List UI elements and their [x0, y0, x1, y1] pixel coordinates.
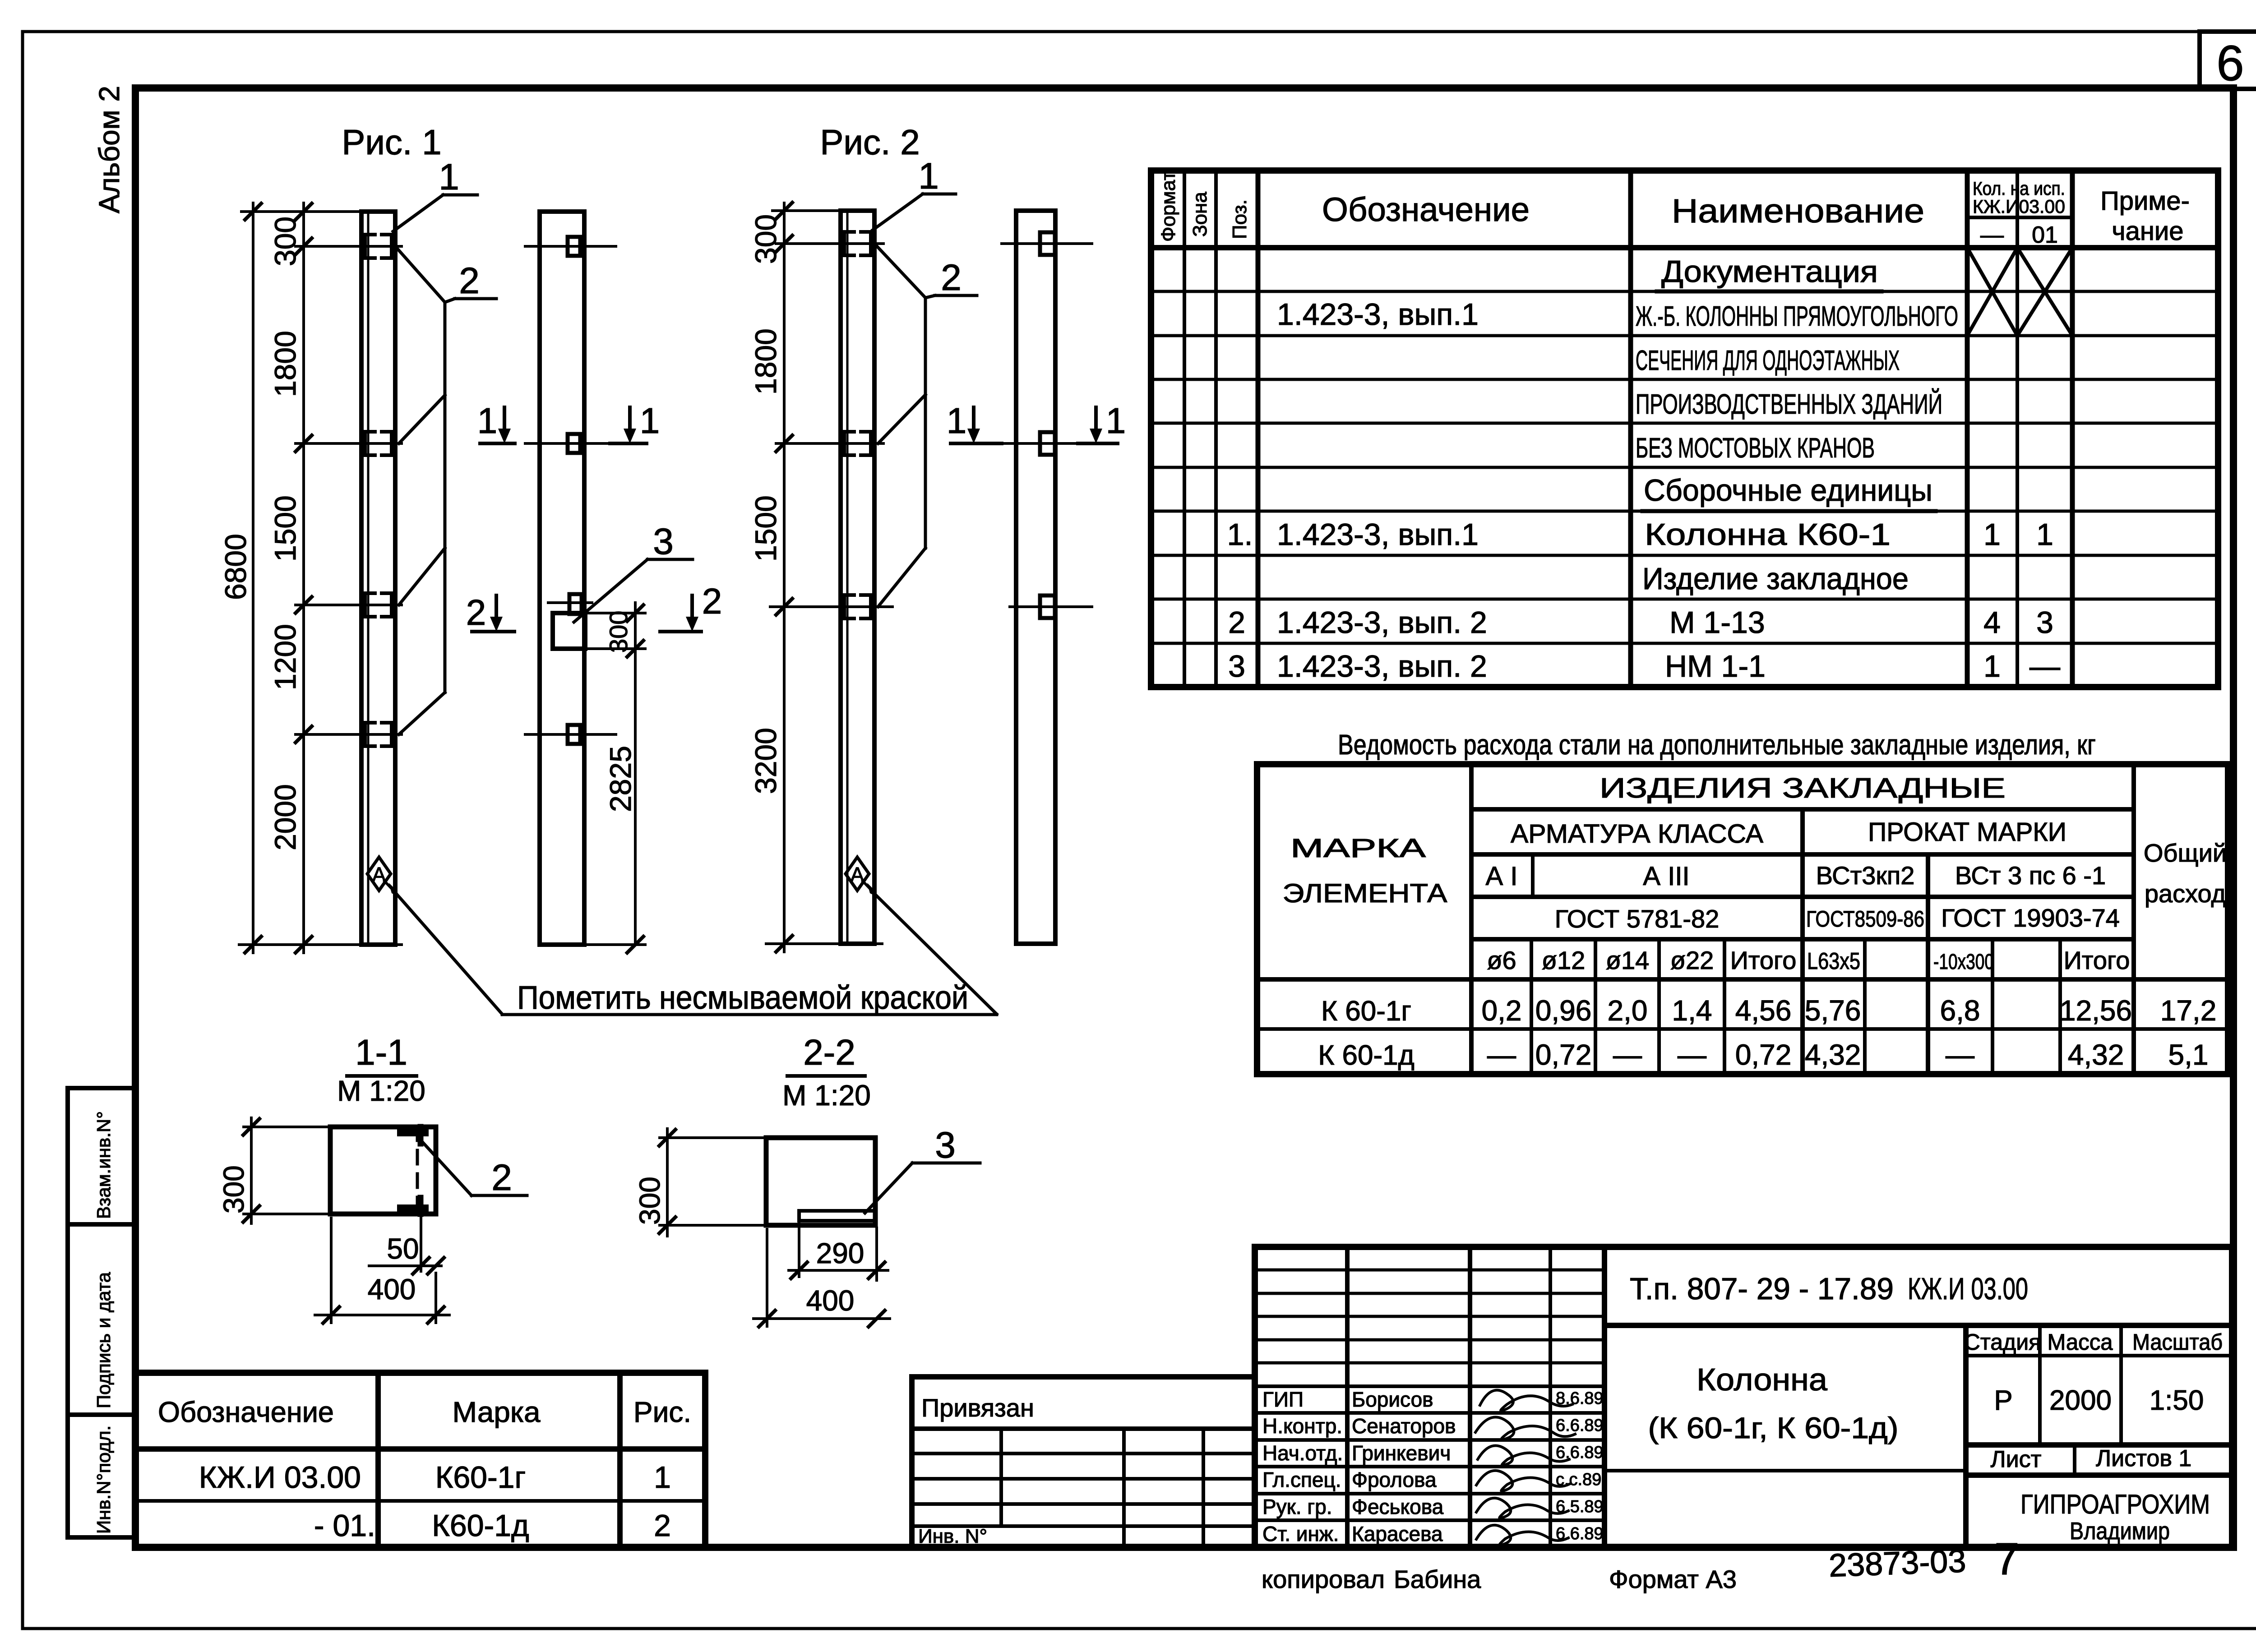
svg-text:8.6.89: 8.6.89 [1556, 1389, 1604, 1408]
fig2 side embed plate 540 [1040, 232, 1055, 255]
fig1 console dim 300 [585, 603, 645, 659]
svg-text:—: — [1678, 1038, 1706, 1071]
fig2 level line top [772, 209, 841, 212]
svg-text:Обозначение: Обозначение [158, 1396, 334, 1428]
svg-text:3: 3 [2036, 605, 2053, 640]
svg-text:ВСт3кп2: ВСт3кп2 [1816, 861, 1915, 890]
steel verticals sub [1531, 854, 2060, 1074]
svg-text:Изделие закладное: Изделие закладное [1642, 562, 1909, 596]
svg-text:Подпись и дата: Подпись и дата [93, 1272, 114, 1408]
bottom-left table verticals [375, 1373, 381, 1547]
fig1 level line 1628 [296, 733, 402, 736]
svg-text:ГОСТ8509-86: ГОСТ8509-86 [1806, 906, 1924, 932]
svg-text:2,0: 2,0 [1608, 994, 1648, 1027]
fig1 side embed tick 1628 [525, 733, 616, 736]
svg-text:1200: 1200 [268, 624, 302, 690]
svg-text:Сборочные единицы: Сборочные единицы [1644, 473, 1932, 508]
svg-text:01: 01 [2032, 222, 2058, 248]
fig2 leader to items 2 [874, 244, 977, 607]
svg-text:ø22: ø22 [1670, 946, 1714, 974]
svg-text:1: 1 [947, 401, 967, 441]
title block verticals left part [1347, 1247, 1604, 1547]
bottom-left table rows [135, 1446, 705, 1452]
fig1 dim 2825 [634, 649, 637, 945]
svg-text:К 60-1г: К 60-1г [1321, 996, 1411, 1027]
svg-text:А: А [851, 863, 864, 886]
svg-text:1: 1 [918, 156, 939, 197]
stamp box podpis i data [68, 1224, 135, 1415]
svg-text:0,96: 0,96 [1535, 994, 1592, 1027]
svg-text:0,72: 0,72 [1535, 1038, 1592, 1071]
svg-text:Пометить несмываемой краской: Пометить несмываемой краской [517, 980, 968, 1016]
svg-text:—: — [2029, 649, 2060, 683]
svg-text:300: 300 [217, 1165, 250, 1214]
spec header bottom line [1151, 245, 2218, 250]
svg-text:Карасева: Карасева [1352, 1522, 1443, 1546]
svg-text:НМ 1-1: НМ 1-1 [1665, 649, 1766, 683]
section 1-1 dim 300 [244, 1118, 330, 1223]
spec X crosses [1967, 248, 2072, 336]
svg-text:Итого: Итого [2064, 946, 2130, 974]
section 1-1 item 2 dashed channel [416, 1127, 419, 1214]
fig1 hooks level 546 [365, 235, 392, 746]
fig2 dim chain line [783, 203, 786, 952]
svg-text:4,32: 4,32 [1805, 1038, 1861, 1071]
fig1 leader from A to note [397, 895, 502, 1014]
title block signature rows [1255, 1386, 1604, 1520]
section 2-2 leader to item 3 [865, 1163, 980, 1213]
svg-text:Формат: Формат [1157, 171, 1179, 242]
svg-text:Колонна К60-1: Колонна К60-1 [1645, 517, 1891, 552]
section 1-1 leader to item 2 [421, 1140, 527, 1195]
svg-text:А: А [372, 863, 386, 886]
fig1 level line bottom [239, 943, 402, 946]
svg-text:МАРКА: МАРКА [1290, 834, 1426, 863]
fig2 leader from A to note [875, 895, 997, 1014]
svg-text:0,72: 0,72 [1735, 1038, 1792, 1071]
svg-text:1.: 1. [1227, 517, 1253, 552]
svg-text:чание: чание [2112, 217, 2183, 246]
svg-text:Н.контр.: Н.контр. [1262, 1414, 1342, 1438]
svg-text:ВСт 3 пс 6 -1: ВСт 3 пс 6 -1 [1955, 861, 2106, 890]
svg-text:Стадия: Стадия [1964, 1329, 2041, 1355]
svg-text:1.423-3, вып.1: 1.423-3, вып.1 [1277, 297, 1479, 332]
svg-text:6800: 6800 [219, 534, 252, 600]
svg-text:ГИП: ГИП [1262, 1388, 1304, 1411]
title block frame [1255, 1247, 2232, 1547]
svg-text:300: 300 [749, 214, 782, 264]
fig2 side embed plate 1345 [1040, 595, 1055, 618]
specification table frame [1151, 171, 2218, 687]
svg-text:1.423-3, вып. 2: 1.423-3, вып. 2 [1277, 649, 1487, 683]
fig1 column front inner edge [367, 212, 370, 945]
svg-text:1: 1 [439, 157, 459, 198]
fig2 side embed plate 983 [1040, 432, 1055, 455]
svg-text:Ст. инж.: Ст. инж. [1262, 1522, 1339, 1546]
svg-text:Ж.-Б. КОЛОННЫ ПРЯМОУГОЛЬНОГО: Ж.-Б. КОЛОННЫ ПРЯМОУГОЛЬНОГО [1636, 301, 1958, 332]
fig1 side embed tick 983 [525, 442, 616, 445]
svg-text:Итого: Итого [1730, 946, 1797, 974]
svg-text:1800: 1800 [749, 328, 782, 395]
fig1 console top tick [548, 601, 592, 604]
fig1 leader to items 2 [395, 246, 496, 734]
svg-text:Фролова: Фролова [1352, 1468, 1437, 1491]
svg-text:Борисов: Борисов [1352, 1388, 1433, 1411]
svg-text:Сенаторов: Сенаторов [1352, 1414, 1456, 1438]
svg-text:Феськова: Феськова [1352, 1495, 1444, 1518]
svg-text:1:50: 1:50 [2150, 1385, 2204, 1416]
svg-text:1800: 1800 [268, 331, 302, 397]
svg-text:Наименование: Наименование [1672, 192, 1924, 230]
svg-text:6: 6 [2216, 36, 2244, 91]
svg-text:1: 1 [1983, 649, 2001, 683]
stadia massa masshtab cells [1966, 1354, 2232, 1357]
svg-text:1: 1 [640, 401, 660, 441]
fig1 side embed plate 983 [568, 434, 580, 453]
fig1 hooks level 1628 [365, 723, 375, 746]
svg-text:Лист: Лист [1991, 1446, 2042, 1472]
fig2 level line 1345 [770, 605, 892, 608]
svg-text:Гл.спец.: Гл.спец. [1262, 1468, 1341, 1491]
fig1 level line top [241, 210, 361, 213]
svg-text:L63x5: L63x5 [1807, 948, 1860, 974]
svg-text:6,8: 6,8 [1940, 994, 1980, 1027]
spec kol cell split [1967, 216, 2072, 219]
fig2 column front inner edge [846, 211, 849, 944]
fig1 console item 3 [553, 613, 585, 649]
fig2 dim ticks [776, 203, 792, 952]
title block big cell divider [1604, 1323, 2232, 1328]
svg-text:Нач.отд.: Нач.отд. [1262, 1441, 1343, 1465]
svg-text:3: 3 [1228, 649, 1245, 683]
fig1 section marker 2 left [472, 595, 514, 632]
svg-text:1: 1 [654, 1460, 671, 1495]
svg-text:БЕЗ МОСТОВЫХ КРАНОВ: БЕЗ МОСТОВЫХ КРАНОВ [1636, 433, 1875, 464]
svg-text:копировал: копировал [1262, 1565, 1385, 1593]
svg-text:1.423-3, вып. 2: 1.423-3, вып. 2 [1277, 605, 1487, 640]
svg-text:2825: 2825 [604, 746, 637, 812]
svg-text:5,76: 5,76 [1805, 994, 1861, 1027]
svg-text:1: 1 [1983, 517, 2001, 552]
fig1 level line 1341 [296, 604, 402, 606]
fig2 level line 983 [776, 442, 883, 445]
fig1 section marker 1 left [480, 407, 515, 443]
svg-text:1: 1 [2036, 517, 2053, 552]
section 2-2 item 3 plate [799, 1211, 875, 1221]
svg-text:КЖ.И 03.00: КЖ.И 03.00 [199, 1460, 361, 1495]
svg-text:КЖ.И 03.00: КЖ.И 03.00 [1908, 1272, 2028, 1306]
svg-text:2000: 2000 [2049, 1385, 2112, 1416]
fig2 side embed tick 983 [1002, 442, 1092, 445]
svg-text:- 01.: - 01. [314, 1509, 375, 1543]
svg-text:1.423-3, вып.1: 1.423-3, вып.1 [1277, 517, 1479, 552]
svg-text:АРМАТУРА КЛАССА: АРМАТУРА КЛАССА [1511, 819, 1763, 849]
svg-text:2: 2 [941, 257, 962, 298]
section 1-1 item 2 bottom weld mark [401, 1204, 425, 1212]
svg-text:Инв. N°: Инв. N° [918, 1525, 987, 1547]
svg-text:Документация: Документация [1661, 254, 1878, 289]
svg-text:ø6: ø6 [1487, 946, 1516, 974]
fig2 leader to item 1 [873, 194, 956, 230]
svg-text:2: 2 [466, 592, 486, 632]
svg-text:1500: 1500 [749, 495, 782, 562]
fig1 hooks level 1341 [365, 593, 375, 617]
svg-text:Масса: Масса [2048, 1329, 2113, 1355]
svg-text:2: 2 [654, 1509, 671, 1543]
page number box [2200, 32, 2256, 89]
paint note underline [502, 1013, 997, 1016]
svg-text:Владимир: Владимир [2070, 1518, 2170, 1545]
svg-text:Листов 1: Листов 1 [2096, 1445, 2191, 1472]
svg-text:—: — [1980, 222, 2004, 248]
svg-text:2: 2 [491, 1157, 512, 1198]
svg-text:2: 2 [1228, 605, 1245, 640]
svg-text:Зона: Зона [1189, 192, 1211, 237]
svg-text:400: 400 [806, 1284, 855, 1317]
svg-text:ø12: ø12 [1542, 946, 1586, 974]
svg-text:300: 300 [268, 217, 302, 266]
svg-text:17,2: 17,2 [2160, 994, 2217, 1027]
svg-text:—: — [1487, 1038, 1516, 1071]
svg-text:А I: А I [1486, 862, 1518, 891]
svg-text:5,1: 5,1 [2168, 1038, 2209, 1071]
fig1 side embed tick 546 [525, 245, 616, 248]
svg-text:290: 290 [816, 1237, 864, 1269]
fig1 leader to item 3 [574, 559, 693, 622]
svg-text:1: 1 [1106, 401, 1126, 441]
svg-text:7: 7 [1994, 1534, 2020, 1584]
svg-text:300: 300 [604, 611, 633, 653]
svg-text:К 60-1д: К 60-1д [1318, 1040, 1415, 1071]
svg-text:50: 50 [387, 1232, 419, 1265]
svg-text:ГОСТ 19903-74: ГОСТ 19903-74 [1941, 904, 2120, 932]
fig2 hooks level 983 [844, 432, 854, 455]
svg-text:—: — [1946, 1038, 1974, 1071]
section 2-2 column outline [766, 1138, 875, 1225]
svg-text:Масштаб: Масштаб [2132, 1329, 2223, 1355]
fig2 section marker 1 left [951, 407, 1002, 443]
svg-text:Колонна: Колонна [1697, 1362, 1827, 1397]
svg-text:ø14: ø14 [1606, 946, 1650, 974]
fig2 side embed tick 540 [1002, 242, 1092, 245]
steel table frame [1257, 764, 2228, 1074]
fig2 level line 540 [776, 242, 883, 245]
spec verticals [1184, 171, 2072, 687]
steel horizontals [1257, 809, 2228, 1029]
svg-text:-10x300: -10x300 [1933, 950, 1994, 974]
svg-text:Общий: Общий [2144, 839, 2227, 867]
svg-text:4: 4 [1983, 605, 2001, 640]
svg-text:6.6.89: 6.6.89 [1556, 1416, 1604, 1435]
fig1 column front view [361, 212, 395, 945]
svg-text:Альбом 2: Альбом 2 [93, 86, 125, 213]
fig1 section marker 1 right [610, 407, 647, 443]
fig2 column front view [841, 211, 874, 944]
svg-text:4,56: 4,56 [1735, 994, 1792, 1027]
bottom-left table frame [135, 1373, 705, 1547]
svg-text:1: 1 [477, 401, 498, 441]
svg-text:6.5.89: 6.5.89 [1556, 1497, 1604, 1516]
fig1 dim chain 6800 line [252, 203, 254, 953]
svg-text:Рис.: Рис. [633, 1396, 691, 1428]
svg-text:с.с.89: с.с.89 [1556, 1470, 1601, 1489]
svg-text:4,32: 4,32 [2068, 1038, 2124, 1071]
svg-text:Привязан: Привязан [921, 1394, 1034, 1422]
fig2 column side view [1016, 211, 1055, 944]
steel verticals main [1471, 764, 2134, 1074]
privyazan box columns [1001, 1429, 1203, 1547]
svg-text:2-2: 2-2 [803, 1032, 855, 1072]
section 2-2 dim 400 [754, 1229, 890, 1326]
title block upper small rows [1255, 1270, 1604, 1363]
svg-text:ПРОКАТ МАРКИ: ПРОКАТ МАРКИ [1868, 817, 2066, 847]
svg-text:ИЗДЕЛИЯ ЗАКЛАДНЫЕ: ИЗДЕЛИЯ ЗАКЛАДНЫЕ [1600, 773, 2006, 804]
svg-text:2: 2 [459, 260, 480, 301]
fig1 column side view [540, 212, 584, 945]
svg-text:расход: расход [2145, 879, 2226, 908]
svg-text:ГИПРОАГРОХИМ: ГИПРОАГРОХИМ [2020, 1489, 2210, 1519]
fig2 side embed tick 1345 [1010, 605, 1092, 608]
svg-text:Рис. 2: Рис. 2 [820, 122, 920, 162]
privyazan box frame [912, 1377, 1255, 1547]
svg-text:23873-03: 23873-03 [1828, 1543, 1967, 1584]
svg-text:6.6.89: 6.6.89 [1556, 1524, 1604, 1543]
svg-text:М 1-13: М 1-13 [1669, 605, 1765, 640]
svg-text:К60-1г: К60-1г [435, 1460, 526, 1495]
fig1 side embed plate 546 [568, 237, 580, 256]
svg-text:6.6.89: 6.6.89 [1556, 1443, 1604, 1462]
stamp box inv N podl [68, 1415, 135, 1537]
stamp box vzam inv N [68, 1088, 135, 1224]
svg-text:Инв.N°подл.: Инв.N°подл. [93, 1426, 114, 1534]
fig1 level line 546 [296, 245, 402, 248]
fig1 leader to item 1 [393, 195, 477, 231]
fig1 level line 983 [296, 442, 402, 445]
fig1 section marker 2 right [660, 595, 701, 632]
svg-text:Р: Р [1994, 1385, 2012, 1416]
svg-text:(К 60-1г, К 60-1д): (К 60-1г, К 60-1д) [1648, 1411, 1899, 1444]
svg-text:Т.п. 807- 29 - 17.89: Т.п. 807- 29 - 17.89 [1630, 1272, 1894, 1306]
section 2-2 dim 300 [660, 1129, 766, 1236]
fig2 level line bottom [766, 942, 882, 945]
svg-text:ЭЛЕМЕНТА: ЭЛЕМЕНТА [1283, 879, 1447, 908]
svg-text:1-1: 1-1 [355, 1032, 407, 1072]
svg-text:Ведомость расхода стали на доп: Ведомость расхода стали на дополнительны… [1338, 729, 2096, 761]
fig2 section marker 1 right [1078, 407, 1118, 443]
svg-text:3: 3 [653, 521, 674, 562]
svg-text:СЕЧЕНИЯ ДЛЯ ОДНОЭТАЖНЫХ: СЕЧЕНИЯ ДЛЯ ОДНОЭТАЖНЫХ [1636, 345, 1900, 376]
svg-text:М 1:20: М 1:20 [337, 1075, 425, 1107]
svg-text:КЖ.И03.00: КЖ.И03.00 [1973, 196, 2065, 217]
fig1 dim ticks [245, 203, 312, 953]
svg-text:М 1:20: М 1:20 [782, 1079, 871, 1112]
svg-text:1,4: 1,4 [1672, 994, 1712, 1027]
svg-text:Рис. 1: Рис. 1 [342, 122, 441, 162]
svg-text:300: 300 [633, 1177, 666, 1225]
section 1-1 column outline [330, 1127, 436, 1214]
svg-text:1500: 1500 [268, 495, 302, 562]
spec row lines [1151, 291, 2218, 643]
svg-text:Приме-: Приме- [2100, 186, 2190, 216]
svg-text:2: 2 [702, 581, 722, 621]
svg-text:Взам.инв.N°: Взам.инв.N° [93, 1111, 114, 1219]
svg-text:Обозначение: Обозначение [1322, 191, 1530, 228]
svg-text:А III: А III [1643, 862, 1689, 891]
svg-text:Гринкевич: Гринкевич [1352, 1441, 1451, 1465]
section 2-2 dim 290 [789, 1223, 888, 1280]
fig2 hooks level 1345 [844, 595, 854, 618]
svg-text:Поз.: Поз. [1229, 199, 1251, 239]
fig1 paint mark diamond A [367, 857, 391, 891]
fig1 hooks level 983 [365, 432, 375, 455]
svg-text:ПРОИЗВОДСТВЕННЫХ ЗДАНИЙ: ПРОИЗВОДСТВЕННЫХ ЗДАНИЙ [1636, 388, 1942, 420]
fig2 hooks level 540 [844, 232, 854, 255]
fig1 console top plate [569, 594, 582, 614]
svg-text:—: — [1613, 1038, 1642, 1071]
svg-text:К60-1д: К60-1д [432, 1509, 529, 1543]
privyazan box rows [912, 1429, 1255, 1526]
svg-text:Рук. гр.: Рук. гр. [1262, 1495, 1332, 1518]
svg-text:400: 400 [368, 1273, 416, 1306]
fig1 side embed plate 1628 [568, 725, 580, 744]
svg-text:12,56: 12,56 [2060, 994, 2132, 1027]
fig1 dim chain segments line [302, 203, 305, 953]
fig2 paint mark diamond A [846, 857, 869, 891]
svg-text:0,2: 0,2 [1482, 994, 1522, 1027]
svg-text:Марка: Марка [453, 1396, 541, 1428]
svg-text:3200: 3200 [749, 728, 782, 794]
section 1-1 item 2 top weld mark [401, 1129, 425, 1136]
svg-text:Формат А3: Формат А3 [1609, 1565, 1737, 1593]
section 1-1 dim 400 [315, 1218, 449, 1323]
svg-text:ГОСТ 5781-82: ГОСТ 5781-82 [1555, 904, 1720, 933]
svg-text:2000: 2000 [268, 784, 302, 850]
svg-text:3: 3 [935, 1125, 956, 1166]
section 1-1 dim 50 [369, 1216, 441, 1271]
svg-text:Бабина: Бабина [1394, 1565, 1481, 1593]
